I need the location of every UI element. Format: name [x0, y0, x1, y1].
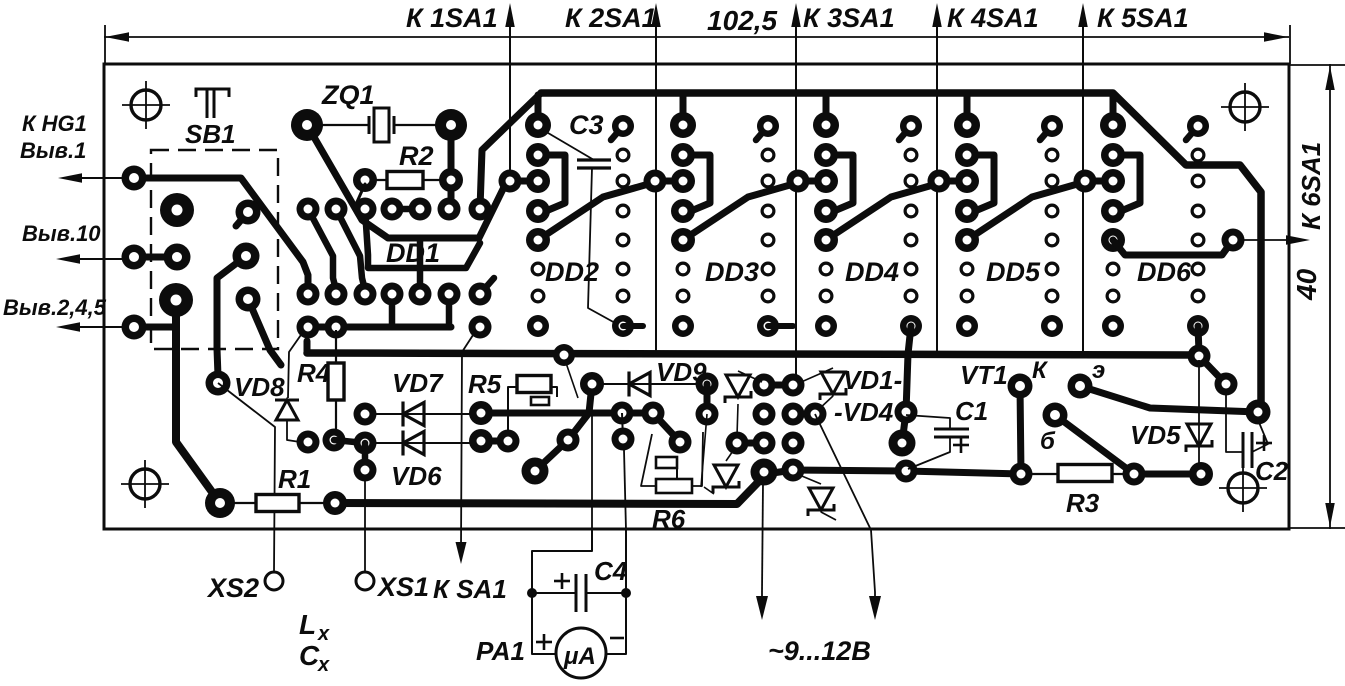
pad node y327 mid — [325, 316, 348, 339]
pad VD8 top — [206, 371, 231, 396]
pad VD8 bottom node — [297, 431, 320, 454]
svg-text:VD7: VD7 — [392, 368, 444, 398]
svg-text:C: C — [299, 640, 320, 671]
wire SB1 pad7 to pad8 line — [134, 324, 176, 331]
svg-text:х: х — [317, 654, 330, 676]
DD5 left column pads — [954, 112, 980, 138]
svg-text:L: L — [299, 609, 316, 640]
pad 764,385 — [753, 374, 776, 397]
pad 793,414 — [782, 403, 805, 426]
svg-text:К: К — [1032, 357, 1049, 384]
pad VD9 left — [580, 372, 604, 396]
wire VT1 e pad to C2 pad — [1080, 386, 1258, 412]
wire to right 9-12V arrow — [815, 414, 875, 592]
pad 707,414 — [696, 403, 719, 426]
svg-text:μА: μА — [563, 643, 596, 670]
wire R2 left pad to trace A — [357, 184, 366, 220]
svg-text:DD1: DD1 — [386, 238, 440, 268]
wire K SA1 arrow — [461, 332, 475, 548]
wire DD5 r5 diagonal to next sa pad — [967, 183, 1081, 240]
wire arrow to Vyv.2,4,5 — [68, 326, 122, 328]
pad VD9 right — [696, 373, 719, 396]
arrow right ~9...12V — [869, 596, 881, 620]
wire C4 left feed — [591, 413, 593, 530]
wire DD3 r8 stub — [768, 323, 793, 329]
pad bus 1021,474 — [1010, 463, 1033, 486]
pad R4 bottom — [323, 429, 346, 452]
wire VD9 stub to junction — [589, 384, 592, 413]
pad R1 right — [323, 491, 347, 515]
wire DD1 bottom bus y=327 — [308, 324, 451, 331]
pad R2-right — [439, 168, 463, 192]
wire VD8 pad to XS2 — [218, 383, 275, 572]
wire DD3 sa-pad bar r3 — [655, 178, 683, 185]
wire VD8 bottom lead — [287, 420, 300, 442]
mounting hole bottom-left — [130, 469, 160, 499]
DD5 right column pads — [1040, 126, 1052, 140]
svg-text:-VD4: -VD4 — [834, 397, 894, 427]
wire K3SA1 pad pair bar — [764, 382, 793, 389]
pad 764,414 — [753, 403, 776, 426]
pad XS1 node — [354, 459, 377, 482]
svg-text:DD4: DD4 — [845, 257, 899, 287]
DD3 right column pads — [756, 126, 768, 140]
VD1-VD4 thin connector wires — [738, 371, 762, 382]
wire C1 top lead — [906, 415, 950, 429]
wire DD4 r8 stub down to bus and C1 area — [906, 326, 911, 412]
crystal ZQ1 — [368, 116, 371, 134]
capacitor C1 — [934, 428, 969, 431]
wire pads 793-815 bar y414 — [793, 411, 815, 418]
wire top supply bus — [541, 93, 1261, 412]
wire C4 horizontal — [532, 592, 576, 594]
DD4 right column pads — [899, 126, 911, 140]
wire R6 links — [676, 468, 678, 479]
wire SB1 pad6 to VD8 pad — [217, 256, 246, 376]
capacitor C3 — [577, 158, 611, 161]
pad C2 top — [1246, 400, 1271, 425]
svg-text:VT1: VT1 — [960, 360, 1008, 390]
svg-text:~9...12В: ~9...12В — [768, 636, 871, 666]
wire/arrow К 3SA1 — [795, 8, 797, 385]
pad 508,441 — [497, 430, 520, 453]
pad 653,413 — [642, 402, 665, 425]
svg-text:К 6SA1: К 6SA1 — [1296, 142, 1326, 230]
junction dots C4 — [527, 588, 537, 598]
resistor R1 — [256, 495, 299, 512]
wire DD1 pin7 to bus diagonal — [480, 93, 541, 209]
svg-text:C1: C1 — [955, 396, 988, 426]
C4 plus sign — [554, 580, 570, 583]
wire 622,413 to 623,439 — [622, 413, 623, 439]
pad ZQ1-2 — [435, 109, 467, 141]
wire DD1 trace B — [365, 209, 480, 268]
wire C2 right lead — [1252, 420, 1268, 452]
svg-text:C4: C4 — [594, 556, 628, 586]
wire VD9 right pair stub — [704, 384, 711, 414]
svg-text:C3: C3 — [569, 110, 604, 140]
pad 481,441 — [469, 429, 493, 453]
wire VD6 pad to XS1 pad — [362, 443, 369, 470]
pad ZQ1-1 — [291, 109, 323, 141]
pad DD1 bottom-7 tail — [480, 278, 494, 294]
pad node y327 right — [469, 316, 492, 339]
resistor R5 — [517, 376, 551, 393]
pad 793,443 — [782, 432, 805, 455]
svg-text:DD5: DD5 — [986, 257, 1041, 287]
pad 793,385 — [782, 374, 805, 397]
wire bus stubs to DD row1 — [535, 95, 542, 125]
wire VD8 top lead — [288, 332, 303, 398]
dimension line 40 right — [1329, 64, 1331, 529]
svg-text:Выв.2,4,5: Выв.2,4,5 — [3, 295, 107, 320]
resistor R4 — [328, 363, 344, 400]
svg-text:К 1SA1: К 1SA1 — [406, 3, 498, 33]
wire DD1 stub pad5 — [417, 238, 424, 294]
meter PA1 — [556, 628, 606, 678]
wire main bus y354 — [307, 353, 1199, 355]
svg-text:VD8: VD8 — [234, 372, 285, 402]
wire thick y413 bus — [481, 413, 680, 442]
wire R5 right lead — [551, 387, 557, 397]
pad DD5 sa r3 — [928, 170, 951, 193]
wire to XS1 jack — [364, 481, 366, 572]
wire R3 leads — [1021, 473, 1058, 475]
svg-text:К HG1: К HG1 — [22, 111, 87, 136]
PA1 minus — [610, 637, 624, 640]
pad y413 left — [469, 401, 493, 425]
R5 tap rect — [531, 397, 549, 405]
DD4 left column pads — [813, 112, 839, 138]
diode VD8 (zener up) — [275, 399, 299, 402]
wire DD5 sa-pad bar r3 — [939, 178, 967, 185]
pad 902,443 — [889, 430, 916, 457]
svg-text:VD6: VD6 — [391, 461, 442, 491]
pad SB1-7 — [122, 315, 147, 340]
svg-text:К 3SA1: К 3SA1 — [803, 3, 895, 33]
wire DD1 stub b4 — [389, 294, 396, 327]
svg-text:SB1: SB1 — [185, 119, 236, 149]
diode VD2 — [821, 372, 845, 394]
pad SB1-8 — [159, 283, 193, 317]
svg-text:РА1: РА1 — [476, 636, 525, 666]
wire SB1 pad8 down to R1 — [176, 300, 220, 503]
pad DD4 sa r3 — [787, 170, 810, 193]
svg-text:ZQ1: ZQ1 — [321, 80, 375, 110]
wire VD7 line — [365, 413, 481, 415]
wire C4 right feed — [624, 450, 626, 530]
wire/arrow К 2SA1 — [655, 8, 657, 354]
wire R2 leads — [365, 179, 387, 181]
wire to left 9-12V arrow — [762, 483, 763, 592]
resistor R3 — [1058, 465, 1112, 482]
pad VT1-K — [1008, 374, 1033, 399]
diode VD5 (zener) — [1187, 424, 1211, 446]
wire DD1 stub b6 — [446, 294, 453, 327]
svg-text:К 4SA1: К 4SA1 — [947, 3, 1039, 33]
pad C2 link — [1215, 373, 1238, 396]
wire DD5 r2 L-trace — [967, 155, 994, 211]
wire thick vert 902 to pads — [902, 412, 906, 443]
diode VD4 — [809, 488, 833, 510]
wire/arrow К 1SA1 — [509, 8, 511, 181]
svg-text:К SA1: К SA1 — [433, 574, 507, 604]
C2 plus sign — [1256, 442, 1272, 445]
svg-text:R2: R2 — [399, 141, 434, 171]
resistor R6 body — [656, 479, 692, 493]
wire C1 bottom lead — [908, 437, 950, 469]
wire VD9 line — [592, 383, 707, 385]
svg-text:R6: R6 — [652, 504, 686, 534]
capacitor C2 — [1242, 432, 1245, 468]
pad 622,413 — [611, 402, 634, 425]
pad R2-left — [353, 168, 377, 192]
pad R3 right — [1123, 463, 1146, 486]
wire arrow to Vyv.1 — [70, 177, 122, 179]
wire SB1 pad1 to DD1 pin — [134, 178, 308, 290]
pad diag bottom — [522, 458, 549, 485]
wire ZQ1 left pad to DD1 trace A — [307, 125, 505, 238]
net label K 6SA1 with arrow — [1243, 239, 1300, 241]
wire DD6 sa-pad bar r3 — [1085, 178, 1113, 185]
pad VT1-e — [1068, 374, 1093, 399]
wire pads 481-508 bar y441 — [481, 438, 508, 445]
wire/arrow К 4SA1 — [936, 8, 938, 354]
svg-text:102,5: 102,5 — [707, 5, 777, 36]
wire DD4 r5 diagonal to next sa pad — [826, 183, 940, 240]
wire VD5 vertical — [1198, 360, 1200, 470]
wire C3 bottom lead — [588, 168, 617, 324]
pad 793,470 — [782, 459, 805, 482]
pad 623,439 — [612, 428, 635, 451]
pad DD6 sa r3 — [1074, 170, 1097, 193]
wire R5 left lead — [508, 387, 517, 432]
pad 906,412 — [895, 401, 918, 424]
arrow left ~9...12V — [756, 596, 768, 620]
svg-text:40: 40 — [1291, 268, 1322, 301]
wire bus pad thin link to R5 — [565, 360, 578, 398]
pad DD2 sa r3 — [499, 170, 522, 193]
wire DD1 t2-b3 — [336, 209, 365, 290]
pad 737,443 — [726, 432, 749, 455]
wire C3 top lead — [543, 130, 594, 160]
wire DD2 r5 diagonal to next sa pad — [538, 183, 652, 240]
resistor R2 — [387, 172, 423, 189]
wire VD6 line — [365, 442, 481, 444]
pad SB1-1 — [122, 166, 147, 191]
pad DD3 sa r3 — [644, 170, 667, 193]
pad diag mid — [557, 429, 580, 452]
svg-text:Выв.1: Выв.1 — [20, 138, 86, 163]
wire ground bus y471 segment — [766, 470, 1021, 474]
capacitor C4 — [575, 574, 578, 612]
pad SB1-2 — [160, 193, 194, 227]
jack XS2 — [265, 572, 283, 590]
wire DD6 r2 L-trace — [1113, 155, 1140, 211]
svg-text:C2: C2 — [1255, 456, 1289, 486]
wire DD6 r8 stub to bus end pad — [1198, 326, 1199, 353]
mounting hole bottom-right — [1228, 473, 1258, 503]
wire bus end pad to C2 link pad — [1199, 356, 1226, 384]
svg-text:XS2: XS2 — [206, 573, 259, 603]
svg-text:К 2SA1: К 2SA1 — [565, 3, 657, 33]
R6 tap rect — [656, 457, 677, 468]
pushbutton symbol SB1 — [196, 89, 229, 97]
SB1 dashed outline — [151, 150, 278, 349]
mounting hole top-left — [131, 90, 161, 120]
wire VD6-VD7 left pads bar — [334, 440, 365, 443]
wire DD6 r5 to K6SA1 pad — [1113, 240, 1233, 255]
wire R6 ground bus — [335, 474, 766, 504]
pad 680,442 — [669, 431, 692, 454]
pad K6SA1 — [1222, 229, 1245, 252]
pad VD6 left — [354, 432, 377, 455]
pad R1 left — [205, 488, 235, 518]
wire SB1 pad9 diagonal — [248, 299, 281, 365]
pad SB1-6 — [233, 243, 260, 270]
wire R3 right to VD5 pad — [1134, 471, 1201, 478]
pad bus end — [1188, 345, 1211, 368]
pad bus junction — [553, 344, 575, 366]
svg-text:э: э — [1092, 357, 1105, 384]
wire DD3 r5 diagonal to next sa pad — [683, 183, 797, 240]
pad VD5 bottom — [1189, 462, 1213, 486]
pad SB1-4 — [122, 245, 147, 270]
diode VD3 — [714, 465, 738, 487]
wire VT1 b pad to R3 — [1055, 415, 1134, 474]
svg-text:VD1-: VD1- — [843, 365, 902, 395]
wire diag junction to pads — [535, 413, 589, 471]
wire R4 leads — [335, 330, 337, 363]
wire DD2 r8 stub — [623, 323, 643, 329]
wire DD3 r2 L-trace — [683, 155, 710, 211]
pad 764,470 — [751, 459, 778, 486]
PA1 plus — [536, 641, 552, 644]
svg-text:XS1: XS1 — [376, 572, 429, 602]
svg-text:б: б — [1040, 428, 1056, 455]
wire arrow to Vyv.10 — [68, 258, 122, 260]
diode VD6 — [401, 431, 404, 456]
pad node y327 left — [297, 316, 320, 339]
wire R1 leads — [220, 502, 256, 504]
wire/arrow К 5SA1 — [1082, 8, 1084, 354]
DD2 left column pads — [525, 112, 551, 138]
svg-text:DD3: DD3 — [705, 257, 759, 287]
pad VD7 left — [354, 403, 377, 426]
pad 906,471 — [895, 460, 918, 483]
jack XS1 — [356, 572, 374, 590]
DD6 left column pads — [1100, 112, 1126, 138]
mounting hole top-right — [1230, 92, 1260, 122]
wire DD4 sa-pad bar r3 — [798, 178, 826, 185]
wire bus corner up-left — [304, 341, 311, 353]
DD6 right column pads — [1186, 126, 1198, 140]
svg-text:R4: R4 — [297, 358, 331, 388]
svg-text:R3: R3 — [1066, 488, 1100, 518]
diode VD7 — [401, 402, 404, 427]
DD1 pads top row — [297, 198, 320, 221]
wire VT1 K pad down to bus — [1020, 386, 1021, 474]
wire DD1 top pads 4-5 bar — [392, 206, 420, 213]
wire C4 loop — [532, 530, 592, 654]
wire DD1 t1-b2 — [308, 209, 336, 290]
wire ZQ1 leads — [322, 124, 369, 126]
pad VT1-b — [1043, 403, 1068, 428]
svg-text:R1: R1 — [278, 464, 311, 494]
pad 764,443 — [753, 432, 776, 455]
svg-text:VD5: VD5 — [1130, 420, 1181, 450]
C1 plus sign — [953, 444, 969, 447]
svg-text:DD6: DD6 — [1137, 257, 1192, 287]
wire DD2 r2 L-trace — [538, 155, 565, 211]
pad SB1-9 — [236, 287, 261, 312]
diode VD1 — [726, 375, 750, 397]
DD2 right column pads — [611, 126, 623, 140]
DD1 pads bottom row — [297, 283, 320, 306]
pad 815,414 — [804, 403, 827, 426]
wire pads 737-764 bar y443 — [737, 440, 764, 447]
board outline — [104, 64, 1289, 529]
DD3 left column pads — [670, 112, 696, 138]
pad SB1-3 — [236, 212, 248, 226]
wire ZQ1 right pad down through R2 — [448, 125, 455, 209]
svg-text:R5: R5 — [468, 369, 502, 399]
wire SB1 pad4-pad5 — [134, 254, 177, 261]
svg-text:Выв.10: Выв.10 — [22, 221, 101, 246]
wire DD4 r2 L-trace — [826, 155, 853, 211]
wire DD2 sa-pad bar r3 — [510, 178, 538, 185]
svg-text:DD2: DD2 — [545, 257, 599, 287]
svg-text:К 5SA1: К 5SA1 — [1097, 3, 1189, 33]
diode VD9 (cathode left) — [627, 372, 630, 397]
dimension line 102,5 — [104, 36, 1289, 38]
wire C2 left lead — [1226, 395, 1243, 452]
pad SB1-5 — [164, 244, 191, 271]
wire thin 707,414 down — [701, 414, 707, 487]
